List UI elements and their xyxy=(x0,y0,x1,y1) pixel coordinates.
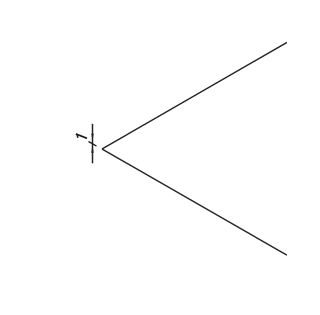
edge line lower xyxy=(102,149,287,255)
dimension line vertical xyxy=(92,124,94,164)
oblique tick xyxy=(89,142,97,147)
edge line upper xyxy=(102,42,287,149)
arrowhead upper xyxy=(91,134,94,141)
arrowhead lower xyxy=(91,146,94,153)
dimension text 1 (rotated digit drawn as strokes) xyxy=(76,134,87,138)
